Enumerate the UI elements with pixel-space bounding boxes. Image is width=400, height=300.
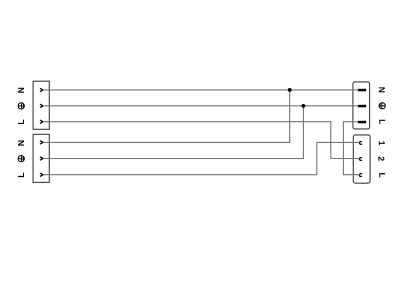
pin X1-3 (male chevron) bbox=[40, 120, 43, 123]
label N (X3) bbox=[379, 87, 385, 92]
label L (X3) bbox=[379, 120, 385, 124]
pin X3-PE (flat blade) bbox=[358, 105, 367, 108]
junction dot N bbox=[288, 88, 292, 92]
label N (X1 pin 1) bbox=[18, 88, 24, 93]
junction dot PE bbox=[302, 104, 306, 108]
pin X1-2 (male chevron) bbox=[40, 104, 43, 107]
socket X4-2 (female contact) bbox=[359, 158, 361, 161]
label PE earth symbol (X2 pin 2) bbox=[18, 156, 24, 162]
label 2 (X4) bbox=[378, 157, 384, 161]
label PE earth symbol (X1 pin 2) bbox=[18, 103, 24, 109]
connector X3 (top-right socket body) bbox=[353, 82, 370, 129]
label L (X4) bbox=[379, 173, 385, 177]
wire X3-L to X4-L (switched line return) bbox=[343, 122, 359, 175]
label L (X2 pin 3) bbox=[18, 173, 24, 177]
pin X2-1 (male chevron) bbox=[40, 141, 43, 144]
label N (X2 pin 1) bbox=[18, 141, 24, 146]
wire L in: X1-3 right then down to X4-2 row bbox=[43, 122, 330, 159]
wire PE bus: X1-2 to X3-PE bbox=[43, 105, 357, 107]
wire L in continues: to X4-2 bbox=[331, 158, 360, 160]
label 1 (X4) bbox=[379, 141, 385, 145]
socket X4-1 (female contact) bbox=[359, 141, 361, 144]
socket X4-L (female contact) bbox=[359, 174, 361, 177]
pin X3-N (flat blade) bbox=[358, 89, 367, 92]
connector X4 (bottom-right socket body) bbox=[353, 135, 370, 183]
connector X2 (bottom-left plug body) bbox=[33, 134, 49, 182]
pin X2-3 (male chevron) bbox=[40, 173, 43, 176]
label L (X1 pin 3) bbox=[18, 120, 24, 124]
wire N bus: X1-1 to X3-N bbox=[43, 89, 357, 91]
pin X2-2 (male chevron) bbox=[40, 157, 43, 160]
label PE earth symbol (X3) bbox=[379, 103, 385, 109]
pin X3-L (flat blade) bbox=[358, 121, 367, 124]
wire X2-3 to X4-1 (switched feed) bbox=[43, 142, 359, 174]
connector X1 (top-left plug body) bbox=[33, 81, 49, 129]
pin X1-1 (male chevron) bbox=[40, 88, 43, 91]
wire PE branch: junction down to X2-2 row bbox=[43, 106, 303, 159]
wire N branch: junction down to X2-1 row bbox=[43, 90, 289, 142]
